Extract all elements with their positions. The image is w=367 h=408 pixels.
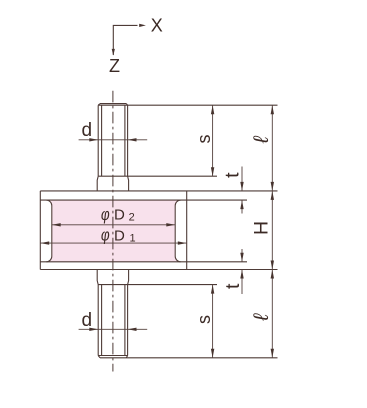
svg-text:ℓ: ℓ (250, 135, 273, 144)
svg-text:d: d (82, 120, 93, 141)
svg-text:s: s (194, 315, 214, 324)
svg-text:t: t (221, 172, 243, 178)
svg-text:d: d (82, 310, 93, 331)
svg-text:Z: Z (109, 56, 120, 76)
svg-text:ℓ: ℓ (250, 313, 273, 322)
svg-text:D: D (114, 227, 125, 244)
svg-text:s: s (194, 135, 214, 144)
svg-text:2: 2 (129, 211, 135, 223)
svg-text:H: H (250, 221, 272, 235)
svg-text:t: t (222, 283, 244, 289)
svg-text:1: 1 (130, 232, 136, 244)
svg-text:D: D (114, 207, 125, 224)
svg-text:X: X (151, 16, 163, 36)
